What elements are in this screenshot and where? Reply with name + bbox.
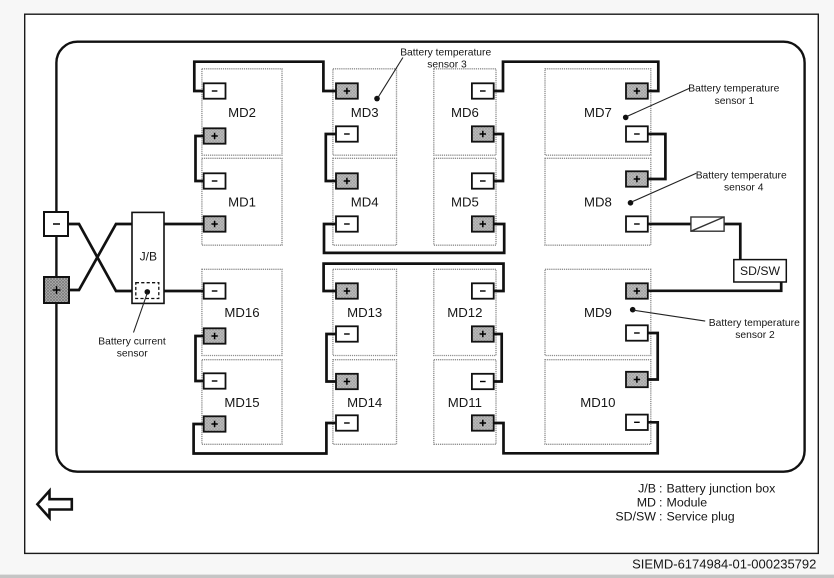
terminal MD12 minus: [472, 283, 494, 298]
svg-text:sensor 1: sensor 1: [715, 96, 755, 107]
terminal MD10 plus: [626, 372, 648, 387]
svg-text:Module: Module: [667, 495, 708, 509]
svg-text:J/B: J/B: [140, 250, 157, 264]
terminal MD9 minus: [626, 325, 648, 340]
terminal MD4 minus: [336, 216, 358, 231]
svg-text:MD7: MD7: [584, 105, 612, 120]
svg-text:sensor 4: sensor 4: [724, 183, 764, 194]
wire: MD2 minus up over to MD3 plus (top bus left): [194, 62, 338, 91]
wire: pack positive terminal to J/B upper port (X crossing): [69, 224, 133, 290]
wire: MD9 minus to MD10 plus (right bracket): [646, 333, 658, 380]
svg-text:MD3: MD3: [351, 105, 379, 120]
terminal MD2 plus: [204, 128, 226, 143]
terminal MD3 plus: [336, 83, 358, 98]
svg-text:Battery temperature: Battery temperature: [696, 170, 787, 181]
label: Battery temperature sensor 1: [688, 84, 779, 107]
svg-text:J/B: J/B: [638, 481, 656, 495]
module MD9: [545, 269, 651, 355]
svg-text:MD1: MD1: [228, 194, 256, 209]
terminal MD12 plus: [472, 326, 494, 341]
terminal MD13 plus: [336, 283, 358, 298]
svg-text:MD12: MD12: [447, 305, 482, 320]
wire: J/B lower port (current sensor) to MD16 minus: [164, 290, 206, 293]
pack negative terminal: [44, 212, 68, 236]
svg-text:SD/SW: SD/SW: [615, 510, 656, 524]
module MD11: [434, 360, 496, 445]
wire: pack negative terminal to J/B lower port (X crossing): [68, 224, 133, 291]
wire: MD11 minus to MD12 plus (right bracket): [492, 334, 502, 382]
svg-text:Battery junction box: Battery junction box: [667, 481, 777, 495]
svg-text:Battery current: Battery current: [98, 337, 166, 348]
svg-text:Battery temperature: Battery temperature: [709, 318, 800, 329]
label: Battery temperature sensor 2: [709, 318, 800, 341]
back arrow (bottom left): [37, 491, 71, 518]
module MD3: [333, 69, 397, 155]
wire: MD5 minus to MD6 plus (right bracket): [492, 134, 503, 181]
terminal MD6 plus: [472, 126, 494, 141]
junction box J/B: [132, 212, 164, 303]
terminal MD15 plus: [204, 416, 226, 431]
svg-text:MD2: MD2: [228, 105, 256, 120]
svg-text:MD14: MD14: [347, 395, 382, 410]
wire: MD12 minus over to MD13 plus (mid bus lower): [324, 264, 504, 291]
svg-text:MD5: MD5: [451, 194, 479, 209]
leader line: sensor 2: [634, 310, 705, 321]
svg-text:MD15: MD15: [224, 395, 259, 410]
leader line: battery current sensor: [134, 293, 148, 333]
svg-text:MD11: MD11: [448, 395, 482, 410]
terminal MD1 plus: [204, 216, 226, 231]
module MD1: [202, 158, 282, 245]
wire: SD/SW to MD9 plus: [646, 282, 781, 291]
terminal MD11 minus: [472, 374, 494, 389]
battery temperature sensor 3 dot: [374, 96, 380, 102]
bottom scan edge band: [0, 575, 834, 578]
terminal MD13 minus: [336, 326, 358, 341]
terminal MD8 minus: [626, 216, 648, 231]
svg-text::: :: [659, 481, 662, 495]
svg-text::: :: [659, 495, 662, 509]
leader line: sensor 3: [378, 58, 403, 98]
battery pack outline (rounded enclosure): [56, 42, 804, 472]
svg-text:MD16: MD16: [224, 305, 259, 320]
battery temperature sensor 2 dot: [630, 307, 636, 313]
pack positive terminal: [44, 277, 69, 303]
terminal MD14 minus: [336, 415, 358, 430]
svg-text:MD9: MD9: [584, 305, 612, 320]
label: Battery current sensor: [98, 337, 166, 360]
wire: MD1 minus to MD2 plus (left bracket): [196, 136, 207, 181]
terminal MD8 plus: [626, 171, 648, 186]
svg-text:SD/SW: SD/SW: [740, 264, 780, 278]
svg-text:MD8: MD8: [584, 194, 612, 209]
module MD4: [333, 158, 397, 245]
battery current sensor dot: [145, 289, 151, 295]
terminal MD14 plus: [336, 374, 358, 389]
module MD8: [545, 158, 651, 245]
legend: abbreviations: [615, 481, 776, 523]
terminal MD16 minus: [204, 283, 226, 298]
terminal MD6 minus: [472, 83, 494, 98]
svg-text:Battery temperature: Battery temperature: [688, 84, 779, 95]
svg-text:sensor: sensor: [117, 349, 148, 360]
module MD5: [434, 158, 496, 245]
module MD7: [545, 69, 651, 155]
terminal MD4 plus: [336, 173, 358, 188]
module MD16: [202, 269, 282, 355]
svg-text:MD6: MD6: [451, 105, 479, 120]
wire: MD7 minus to MD8 plus (right bracket): [646, 134, 665, 179]
terminal MD3 minus: [336, 126, 358, 141]
wire: MD6 minus up over to MD7 plus (top bus right): [492, 62, 658, 91]
module MD2: [202, 69, 282, 155]
svg-text:MD4: MD4: [351, 194, 379, 209]
terminal MD5 minus: [472, 173, 494, 188]
wire: MD14 minus under to MD15 plus (bottom bus left): [194, 423, 338, 454]
wire: MD15 minus to MD16 plus (left bracket): [196, 336, 207, 381]
svg-text:Service plug: Service plug: [667, 510, 735, 524]
wire: J/B upper port to MD1 plus: [164, 223, 206, 226]
battery temperature sensor 4 dot: [628, 200, 634, 206]
svg-text:sensor 2: sensor 2: [735, 330, 775, 341]
leader line: sensor 4: [632, 173, 696, 202]
fuse / interlock symbol: [691, 217, 724, 231]
module MD13: [333, 269, 397, 355]
terminal MD5 plus: [472, 216, 494, 231]
module MD10: [545, 360, 651, 445]
module MD6: [434, 69, 496, 155]
wire: MD10 minus under to MD11 plus (bottom bus right): [492, 422, 658, 453]
wire: MD8 minus to fuse: [646, 223, 691, 226]
svg-text:Battery temperature: Battery temperature: [400, 48, 491, 59]
svg-text:MD: MD: [637, 495, 656, 509]
terminal MD16 plus: [204, 328, 226, 343]
label: Battery temperature sensor 3: [400, 48, 491, 71]
module MD15: [202, 360, 282, 445]
svg-text:MD13: MD13: [347, 305, 382, 320]
terminal MD15 minus: [204, 373, 226, 388]
wire: MD4 minus under to MD5 plus (mid bus upper): [324, 224, 504, 253]
module MD14: [333, 360, 397, 445]
svg-text:sensor 3: sensor 3: [427, 60, 467, 71]
battery current sensor (dashed box): [136, 283, 159, 299]
svg-text:MD10: MD10: [580, 395, 615, 410]
leader line: sensor 1: [627, 88, 690, 117]
wire: fuse to SD/SW: [724, 224, 740, 260]
terminal MD10 minus: [626, 415, 648, 430]
battery temperature sensor 1 dot: [623, 115, 629, 121]
wire: MD13 minus to MD14 plus (left bracket): [327, 334, 339, 382]
terminal MD9 plus: [626, 283, 648, 298]
svg-text::: :: [659, 510, 662, 524]
terminal MD11 plus: [472, 415, 494, 430]
wire: MD3 minus to MD4 plus (left bracket): [326, 134, 338, 181]
service plug SD/SW: [734, 260, 787, 282]
terminal MD7 plus: [626, 83, 648, 98]
terminal MD1 minus: [204, 173, 226, 188]
terminal MD7 minus: [626, 126, 648, 141]
terminal MD2 minus: [204, 83, 226, 98]
module MD12: [434, 269, 496, 355]
label: Battery temperature sensor 4: [696, 170, 787, 193]
svg-text:SIEMD-6174984-01-000235792: SIEMD-6174984-01-000235792: [632, 557, 816, 572]
